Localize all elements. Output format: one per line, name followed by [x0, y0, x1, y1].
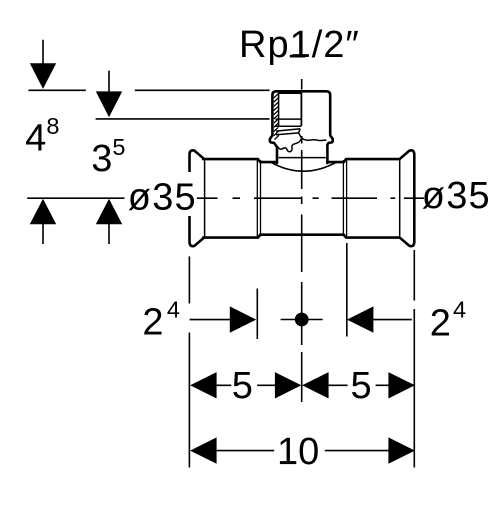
svg-text:5: 5	[232, 365, 253, 407]
svg-text:4: 4	[25, 118, 46, 160]
svg-text:8: 8	[46, 113, 59, 139]
svg-text:2: 2	[430, 303, 451, 345]
svg-text:5: 5	[112, 134, 125, 160]
svg-text:5: 5	[351, 365, 372, 407]
svg-text:2: 2	[142, 301, 163, 343]
svg-text:ø35: ø35	[128, 177, 197, 219]
svg-text:4: 4	[167, 296, 180, 322]
svg-text:ø35: ø35	[422, 175, 491, 217]
svg-text:Rp1/2″: Rp1/2″	[239, 24, 360, 66]
svg-text:4: 4	[453, 297, 466, 323]
svg-text:3: 3	[91, 138, 112, 180]
svg-text:10: 10	[277, 431, 319, 473]
